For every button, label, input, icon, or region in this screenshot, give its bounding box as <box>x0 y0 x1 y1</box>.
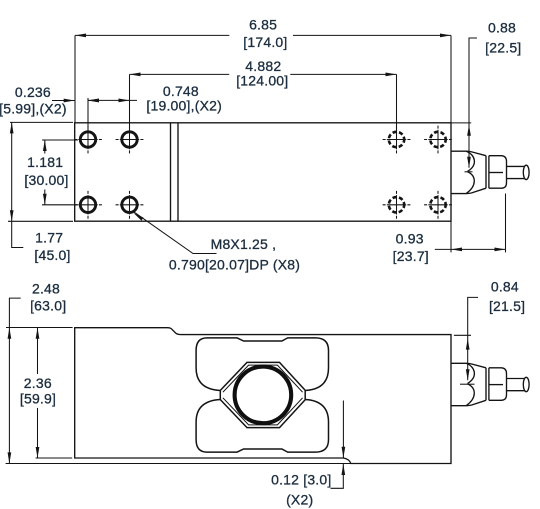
svg-text:6.85: 6.85 <box>249 17 277 33</box>
svg-text:[59.9]: [59.9] <box>20 391 56 407</box>
svg-text:1.181: 1.181 <box>27 154 63 170</box>
svg-text:[174.0]: [174.0] <box>243 34 287 50</box>
svg-text:[19.00],(X2): [19.00],(X2) <box>146 97 222 113</box>
svg-text:[22.5]: [22.5] <box>485 39 521 55</box>
svg-text:0.88: 0.88 <box>488 20 516 36</box>
svg-text:2.48: 2.48 <box>32 281 60 297</box>
svg-text:0.12 [3.0]: 0.12 [3.0] <box>271 472 331 488</box>
svg-text:1.77: 1.77 <box>35 229 63 245</box>
svg-text:M8X1.25 ,: M8X1.25 , <box>211 236 277 252</box>
svg-text:0.84: 0.84 <box>491 279 519 295</box>
svg-text:[5.99],(X2): [5.99],(X2) <box>0 101 67 117</box>
svg-text:0.236: 0.236 <box>15 84 51 100</box>
svg-text:0.790[20.07]DP (X8): 0.790[20.07]DP (X8) <box>169 257 300 273</box>
svg-text:(X2): (X2) <box>286 491 313 507</box>
svg-text:0.93: 0.93 <box>396 231 424 247</box>
svg-text:[21.5]: [21.5] <box>489 298 525 314</box>
svg-text:[30.00]: [30.00] <box>24 172 68 188</box>
svg-text:[45.0]: [45.0] <box>34 247 70 263</box>
svg-text:[63.0]: [63.0] <box>30 297 66 313</box>
svg-text:[124.00]: [124.00] <box>236 72 288 88</box>
svg-text:2.36: 2.36 <box>24 375 52 391</box>
svg-text:[23.7]: [23.7] <box>393 248 429 264</box>
